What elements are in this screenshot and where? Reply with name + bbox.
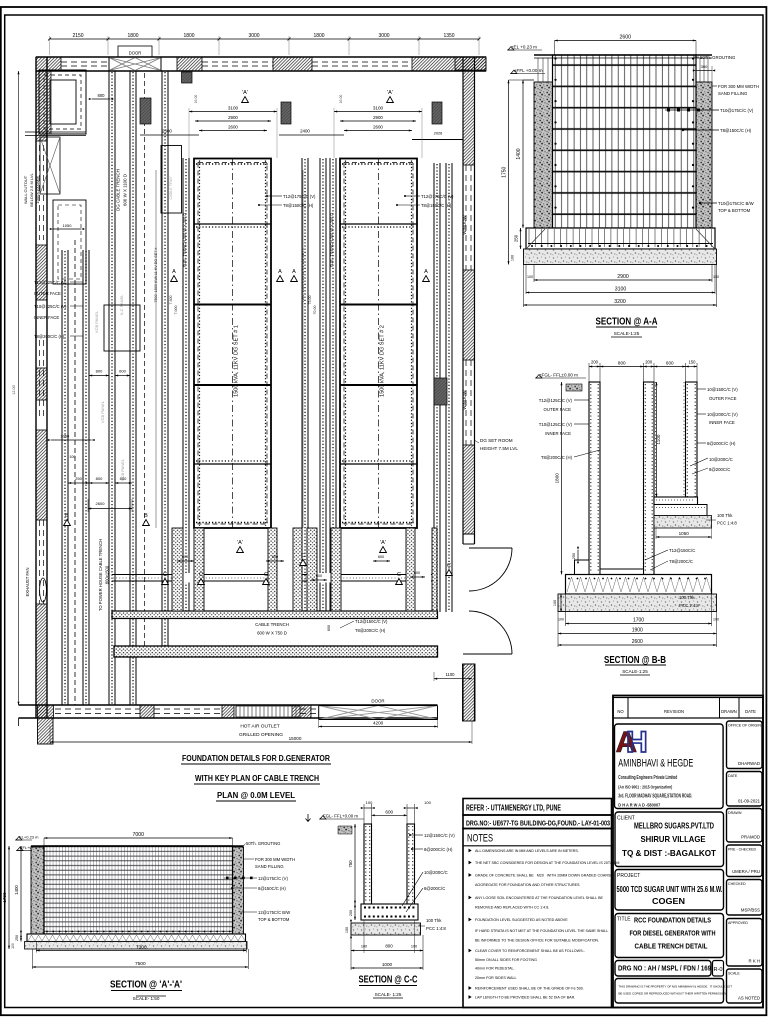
svg-text:PROJECT: PROJECT — [617, 873, 640, 879]
svg-text:2900: 2900 — [373, 115, 383, 120]
svg-text:C: C — [199, 572, 203, 578]
svg-text:DATE: DATE — [745, 709, 756, 714]
svg-text:1800: 1800 — [127, 33, 138, 39]
svg-text:2600: 2600 — [373, 125, 383, 130]
svg-text:SCALE-1:25: SCALE-1:25 — [622, 669, 648, 674]
svg-text:01-09-2021: 01-09-2021 — [738, 799, 761, 804]
svg-text:600: 600 — [414, 571, 420, 575]
svg-text:600: 600 — [327, 625, 331, 631]
svg-text:FUEL TRENCH 300 W X 300 D: FUEL TRENCH 300 W X 300 D — [182, 213, 187, 268]
svg-text:100: 100 — [713, 618, 719, 622]
svg-text:AMINBHAVI & HEGDE: AMINBHAVI & HEGDE — [618, 758, 693, 770]
svg-text:2600: 2600 — [228, 125, 238, 130]
svg-text:150: 150 — [689, 360, 697, 365]
svg-text:BE INFORMED TO THE DESIGN OFFI: BE INFORMED TO THE DESIGN OFFICE FOR SUI… — [475, 939, 599, 943]
svg-text:200: 200 — [349, 910, 353, 916]
svg-text:IF HARD STRATA IS NOT MET AT T: IF HARD STRATA IS NOT MET AT THE FOUNDAT… — [475, 929, 608, 933]
svg-text:3000: 3000 — [248, 33, 259, 39]
svg-text:250: 250 — [514, 234, 519, 242]
svg-text:100: 100 — [366, 800, 373, 805]
svg-text:SECTION @ C-C: SECTION @ C-C — [359, 975, 418, 986]
svg-text:2150: 2150 — [72, 33, 83, 39]
svg-text:SHIRUR VILLAGE: SHIRUR VILLAGE — [641, 835, 706, 844]
svg-text:1100: 1100 — [445, 672, 455, 677]
svg-text:A: A — [278, 269, 282, 275]
svg-text:1500 kVA, 11KV DG SET # 1: 1500 kVA, 11KV DG SET # 1 — [234, 325, 240, 397]
svg-text:RCC FOUNDATION DETAILS: RCC FOUNDATION DETAILS — [634, 916, 711, 925]
svg-text:T10@175C/C (V): T10@175C/C (V) — [720, 108, 754, 113]
svg-text:100: 100 — [411, 945, 417, 949]
svg-text:REFER :- UTTAMENERGY LTD, PUNE: REFER :- UTTAMENERGY LTD, PUNE — [466, 803, 561, 813]
svg-text:70.00: 70.00 — [313, 306, 317, 315]
svg-text:H: H — [626, 726, 648, 759]
svg-text:DRG NO : AH / MSPL / FDN / 169: DRG NO : AH / MSPL / FDN / 169 — [618, 964, 711, 973]
svg-text:1500 kVA, 11KV DG SET # 2: 1500 kVA, 11KV DG SET # 2 — [380, 325, 386, 397]
svg-text:C: C — [163, 572, 167, 578]
svg-text:3000: 3000 — [378, 33, 389, 39]
svg-text:100 Thk: 100 Thk — [679, 595, 695, 600]
svg-text:SCALE: SCALE — [728, 972, 740, 976]
svg-text:3200: 3200 — [614, 299, 626, 305]
svg-text:OUTER FACE: OUTER FACE — [544, 407, 572, 412]
svg-text:A: A — [424, 269, 428, 275]
svg-text:WINDOW: WINDOW — [462, 390, 467, 410]
svg-text:800: 800 — [96, 369, 103, 374]
svg-text:600: 600 — [272, 555, 278, 559]
svg-text:T12@150C/C (V): T12@150C/C (V) — [355, 619, 388, 624]
svg-text:DHARWAD: DHARWAD — [738, 761, 760, 766]
svg-text:C: C — [301, 553, 305, 559]
svg-text:600 W X 1100 D: 600 W X 1100 D — [123, 174, 128, 206]
svg-text:C: C — [264, 572, 268, 578]
svg-text:DRAWN: DRAWN — [721, 709, 737, 714]
svg-text:'A': 'A' — [380, 540, 386, 546]
svg-text:TITLE: TITLE — [617, 917, 631, 923]
svg-text:DATE: DATE — [728, 774, 738, 778]
svg-text:APPROVED: APPROVED — [728, 921, 748, 925]
svg-text:600: 600 — [182, 555, 188, 559]
svg-text:1400: 1400 — [516, 148, 522, 159]
svg-text:EXHAUST FAN: EXHAUST FAN — [25, 567, 30, 596]
svg-text:73.00: 73.00 — [308, 296, 312, 305]
svg-text:C: C — [447, 563, 451, 569]
svg-text:LAP LENGTH TO BE PROVIDED SHAL: LAP LENGTH TO BE PROVIDED SHALL BE 52 DI… — [475, 996, 575, 1000]
svg-text:VCB PANEL: VCB PANEL — [94, 310, 99, 333]
svg-text:HEIGHT 7.5M LVL: HEIGHT 7.5M LVL — [480, 446, 518, 451]
svg-text:R K H: R K H — [749, 959, 760, 964]
svg-text:1800: 1800 — [183, 33, 194, 39]
svg-text:FOUNDATION DETAILS FOR D.GENER: FOUNDATION DETAILS FOR D.GENERATOR — [182, 753, 331, 763]
svg-text:3100: 3100 — [615, 287, 627, 293]
svg-text:T10@125C/C (V): T10@125C/C (V) — [539, 422, 573, 427]
svg-text:OFFICE OF ORIGIN: OFFICE OF ORIGIN — [728, 724, 761, 728]
svg-text:2600: 2600 — [96, 501, 106, 506]
svg-text:1800: 1800 — [313, 33, 324, 39]
svg-text:CHECKED: CHECKED — [728, 882, 746, 886]
svg-text:SCALE- 1:50: SCALE- 1:50 — [133, 996, 160, 1001]
svg-text:'A': 'A' — [242, 90, 248, 96]
svg-text:INNER FACE: INNER FACE — [545, 431, 571, 436]
svg-text:600: 600 — [378, 555, 384, 559]
svg-text:600: 600 — [120, 476, 127, 481]
svg-text:AGGREGATE FOR FOUNDATION AND O: AGGREGATE FOR FOUNDATION AND OTHER STRUC… — [475, 883, 580, 887]
svg-text:10@200C/C: 10@200C/C — [709, 457, 733, 462]
svg-text:EL+0.23 m: EL+0.23 m — [19, 835, 39, 840]
svg-text:1050: 1050 — [679, 531, 690, 536]
svg-text:50Th. GROUTING: 50Th. GROUTING — [700, 55, 736, 60]
svg-text:10@150C/C (V): 10@150C/C (V) — [707, 387, 738, 392]
svg-text:100 Thk: 100 Thk — [717, 513, 733, 518]
svg-text:600: 600 — [316, 574, 322, 578]
svg-text:600: 600 — [666, 361, 674, 366]
svg-text:REINFORCEMENT USED SHALL BE OF: REINFORCEMENT USED SHALL BE OF THE GRADE… — [475, 987, 584, 991]
svg-text:SAND FILLING: SAND FILLING — [718, 91, 748, 96]
svg-text:1100: 1100 — [656, 434, 661, 444]
svg-text:100: 100 — [553, 600, 557, 606]
svg-text:GRADE OF CONCRETE SHALL BE M: GRADE OF CONCRETE SHALL BE M20 WITH 20MM… — [475, 874, 613, 878]
svg-text:16.00: 16.00 — [194, 95, 198, 104]
svg-text:±EL +0.23 m: ±EL +0.23 m — [511, 45, 537, 50]
svg-text:FGL- FFL+0.00 m: FGL- FFL+0.00 m — [323, 814, 358, 819]
svg-text:T8@150C/C (H): T8@150C/C (H) — [283, 203, 314, 208]
svg-text:8@200C/C: 8@200C/C — [424, 886, 445, 891]
svg-text:SCALE- 1:25: SCALE- 1:25 — [375, 992, 402, 997]
svg-text:1000X1000MM: 1000X1000MM — [35, 176, 40, 203]
svg-text:800: 800 — [98, 93, 106, 98]
svg-text:200: 200 — [591, 360, 599, 365]
svg-text:3rd. FLOOR MADHAV SQUARE,STATI: 3rd. FLOOR MADHAV SQUARE,STATION ROAD. — [618, 794, 692, 800]
svg-text:600: 600 — [119, 369, 126, 374]
svg-text:FOUNDATION LEVEL SUGGESTED AS: FOUNDATION LEVEL SUGGESTED AS NOTED ABOV… — [475, 918, 568, 922]
svg-text:TO POWER HOUSE CABLE TRENCH: TO POWER HOUSE CABLE TRENCH — [98, 539, 103, 611]
svg-text:100: 100 — [713, 275, 719, 279]
svg-text:C: C — [397, 572, 401, 578]
svg-text:PRAMOD: PRAMOD — [741, 835, 760, 840]
svg-text:T8@200C/C (H): T8@200C/C (H) — [541, 455, 573, 460]
svg-text:800x1500: 800x1500 — [105, 565, 110, 584]
svg-text:MSP/BSS: MSP/BSS — [741, 908, 760, 913]
svg-text:T10@175C/C B/W: T10@175C/C B/W — [718, 201, 755, 206]
svg-text:SCALE-1:25: SCALE-1:25 — [614, 331, 640, 336]
svg-text:800: 800 — [618, 361, 626, 366]
svg-text:DG SET ROOM: DG SET ROOM — [480, 438, 513, 443]
svg-text:D H A R W A D -580007: D H A R W A D -580007 — [618, 803, 660, 809]
svg-text:4200: 4200 — [373, 721, 384, 726]
svg-text:8@150C/C (H): 8@150C/C (H) — [258, 886, 286, 891]
svg-text:3100: 3100 — [228, 106, 239, 111]
svg-text:250: 250 — [15, 935, 19, 941]
svg-text:T12@175C/C (V): T12@175C/C (V) — [421, 194, 454, 199]
svg-text:T8@200C/C: T8@200C/C — [669, 559, 693, 564]
svg-text:FOR DIESEL GENERATOR WITH: FOR DIESEL GENERATOR WITH — [630, 929, 716, 938]
svg-text:FOR 300 MM WIDTH: FOR 300 MM WIDTH — [255, 857, 295, 862]
svg-text:FOR 300 MM WIDTH: FOR 300 MM WIDTH — [718, 84, 759, 89]
svg-text:PCC 1:4:8: PCC 1:4:8 — [717, 521, 737, 526]
svg-text:12@150C/C (V): 12@150C/C (V) — [424, 833, 455, 838]
svg-text:'A': 'A' — [387, 90, 393, 96]
svg-text:MELLBRO SUGARS.PVT.LTD: MELLBRO SUGARS.PVT.LTD — [634, 822, 714, 831]
svg-text:BE USED COPIED OR REPRODUCED W: BE USED COPIED OR REPRODUCED WITHOUT THE… — [619, 992, 727, 996]
svg-text:16.00: 16.00 — [339, 95, 343, 104]
svg-text:2900: 2900 — [617, 274, 629, 280]
svg-text:SECTION @ 'A'-'A': SECTION @ 'A'-'A' — [110, 980, 182, 991]
svg-text:±FGL- FFL±0.00 m: ±FGL- FFL±0.00 m — [539, 373, 578, 378]
svg-text:8@200C/C (H): 8@200C/C (H) — [424, 847, 453, 852]
svg-text:100: 100 — [558, 618, 564, 622]
svg-text:T12@125C/C (V): T12@125C/C (V) — [539, 398, 573, 403]
svg-text:INNER FACE: INNER FACE — [709, 420, 735, 425]
svg-text:A: A — [292, 269, 296, 275]
svg-text:100: 100 — [511, 255, 515, 261]
svg-text:1050: 1050 — [63, 223, 73, 228]
svg-text:5000 TCD SUGAR UNIT WITH 25.6: 5000 TCD SUGAR UNIT WITH 25.6 M.W. — [617, 885, 723, 894]
svg-text:FUEL TRENCH 300 W X 300 D: FUEL TRENCH 300 W X 300 D — [329, 213, 334, 268]
svg-text:INNER FACE: INNER FACE — [34, 315, 59, 320]
svg-text:SAND FILLING: SAND FILLING — [255, 864, 284, 869]
svg-text:1700: 1700 — [633, 618, 644, 624]
svg-text:UMERA / PRU: UMERA / PRU — [732, 869, 760, 874]
svg-text:HOT AIR OUTLET: HOT AIR OUTLET — [240, 724, 279, 730]
svg-text:(An ISO 9001 : 2015 Organizati: (An ISO 9001 : 2015 Organization) — [618, 785, 672, 791]
svg-text:OUTER FACE: OUTER FACE — [34, 291, 61, 296]
svg-text:ALL DIMENSIONS ARE IN MM AND L: ALL DIMENSIONS ARE IN MM AND LEVELS ARE … — [475, 849, 579, 853]
svg-text:50Th. GROUTING: 50Th. GROUTING — [246, 841, 280, 846]
svg-text:40mm FOR PEDESTAL.: 40mm FOR PEDESTAL. — [475, 967, 515, 971]
svg-text:10@200C/C: 10@200C/C — [424, 870, 448, 875]
svg-text:±FFL +0.00 m: ±FFL +0.00 m — [514, 68, 543, 73]
svg-text:7300: 7300 — [136, 945, 147, 951]
svg-text:100: 100 — [424, 800, 431, 805]
svg-text:250: 250 — [572, 553, 576, 559]
svg-text:1900: 1900 — [632, 628, 643, 634]
svg-text:2600: 2600 — [619, 35, 631, 41]
svg-text:SECTION @ A-A: SECTION @ A-A — [596, 317, 658, 328]
svg-text:B: B — [144, 513, 148, 519]
svg-text:7500: 7500 — [135, 961, 146, 967]
svg-text:50mm ON ALL SIDES FOR FOOTING: 50mm ON ALL SIDES FOR FOOTING — [475, 958, 537, 962]
svg-text:DRG.NO:- UE677-TG BUILDING-DG,: DRG.NO:- UE677-TG BUILDING-DG,FOUND.- LA… — [466, 821, 610, 828]
svg-text:3100: 3100 — [373, 106, 384, 111]
svg-text:BELOW 2.5 M LVL: BELOW 2.5 M LVL — [29, 172, 34, 206]
svg-text:PCC 1:4:8: PCC 1:4:8 — [426, 926, 446, 931]
svg-text:B: B — [65, 513, 69, 519]
svg-text:1000: 1000 — [382, 962, 393, 967]
svg-text:CLIENT: CLIENT — [617, 816, 635, 822]
svg-text:1400: 1400 — [14, 885, 19, 895]
svg-text:TQ & DIST :-BAGALKOT: TQ & DIST :-BAGALKOT — [622, 849, 716, 858]
svg-text:100: 100 — [69, 455, 75, 459]
svg-text:CLEAR COVER TO REINFORCEMENT S: CLEAR COVER TO REINFORCEMENT SHALL BE AS… — [475, 949, 586, 953]
svg-text:THIS DRAWING IS THE PROPERTY O: THIS DRAWING IS THE PROPERTY OF M/S AMIN… — [619, 985, 733, 989]
svg-text:T12@175C/C (V): T12@175C/C (V) — [283, 194, 316, 199]
svg-text:250: 250 — [75, 476, 82, 481]
svg-text:DOOR: DOOR — [371, 699, 384, 704]
svg-text:T12@150C/C: T12@150C/C — [669, 548, 695, 553]
svg-text:AS NOTED: AS NOTED — [738, 996, 760, 1001]
svg-text:12.00: 12.00 — [12, 385, 16, 395]
svg-text:T8@150C/C (H): T8@150C/C (H) — [720, 128, 752, 133]
svg-text:DOOR: DOOR — [129, 51, 142, 56]
svg-text:15000: 15000 — [289, 736, 302, 741]
svg-text:TOP & BOTTOM: TOP & BOTTOM — [258, 917, 290, 922]
svg-text:PCC 1:4:8: PCC 1:4:8 — [679, 603, 699, 608]
svg-text:10@200C/C (V): 10@200C/C (V) — [707, 412, 738, 417]
svg-text:OUTER FACE: OUTER FACE — [709, 396, 737, 401]
svg-text:1790: 1790 — [2, 892, 7, 903]
svg-text:WITH KEY PLAN OF CABLE TRENCH: WITH KEY PLAN OF CABLE TRENCH — [195, 773, 319, 783]
svg-text:800: 800 — [385, 944, 393, 949]
svg-text:NO: NO — [617, 709, 624, 714]
svg-text:PRE - CHECKED: PRE - CHECKED — [728, 848, 757, 852]
svg-text:2400: 2400 — [300, 129, 310, 134]
svg-text:12@175C/C B/W: 12@175C/C B/W — [258, 910, 290, 915]
svg-text:7000: 7000 — [132, 832, 144, 838]
svg-text:750: 750 — [348, 860, 353, 868]
svg-text:2600: 2600 — [632, 639, 643, 645]
svg-text:T10@125C/C (V): T10@125C/C (V) — [34, 304, 67, 309]
svg-text:1350: 1350 — [443, 33, 454, 39]
svg-text:7.300: 7.300 — [169, 296, 173, 305]
svg-text:20mm FOR SIDES WALL: 20mm FOR SIDES WALL — [475, 976, 517, 980]
svg-text:200: 200 — [645, 360, 653, 365]
svg-text:100 Thk: 100 Thk — [426, 918, 442, 923]
svg-text:CABLE TRENCH: CABLE TRENCH — [255, 622, 289, 627]
svg-text:8@200C/C (H): 8@200C/C (H) — [707, 441, 736, 446]
svg-text:REMOVED AND REPLACED WITH CC 1: REMOVED AND REPLACED WITH CC 1:4:8. — [475, 906, 549, 910]
svg-text:NOTES: NOTES — [467, 833, 493, 845]
svg-text:100: 100 — [527, 275, 533, 279]
svg-text:REVISION: REVISION — [664, 709, 684, 714]
svg-text:GRILLED OPENING: GRILLED OPENING — [239, 732, 283, 738]
svg-text:1050: 1050 — [60, 434, 70, 439]
svg-text:CABLE TRENCH DETAIL: CABLE TRENCH DETAIL — [635, 942, 708, 951]
svg-text:600 W X 750 D: 600 W X 750 D — [257, 631, 287, 636]
svg-text:600: 600 — [385, 810, 393, 815]
svg-text:7.000: 7.000 — [174, 306, 178, 315]
svg-text:300: 300 — [701, 64, 708, 69]
svg-text:1800: 1800 — [555, 473, 560, 484]
svg-text:DG CABLE TRENCH: DG CABLE TRENCH — [116, 169, 121, 211]
svg-text:VCB PANEL: VCB PANEL — [100, 400, 105, 423]
svg-text:ANY LOOSE SOIL ENCOUNTERED AT: ANY LOOSE SOIL ENCOUNTERED AT THE FOUNDA… — [475, 896, 603, 900]
svg-text:2300: 2300 — [162, 129, 172, 134]
svg-text:A: A — [172, 269, 176, 275]
svg-text:R-0: R-0 — [713, 967, 722, 973]
svg-text:T8@150C/C (H): T8@150C/C (H) — [421, 203, 452, 208]
svg-text:1750: 1750 — [502, 166, 508, 177]
svg-text:TOP & BOTTOM: TOP & BOTTOM — [718, 208, 751, 213]
svg-text:CABLE TRAY: CABLE TRAY — [169, 176, 173, 200]
svg-text:DRAWN: DRAWN — [728, 811, 742, 815]
svg-text:WINDOW: WINDOW — [462, 215, 467, 235]
svg-text:THE NET SBC CONSIDERED FOR DES: THE NET SBC CONSIDERED FOR DESIGN AT THE… — [475, 861, 619, 865]
svg-text:T8@200C/C (H): T8@200C/C (H) — [355, 628, 386, 633]
svg-text:Consulting Engineers Private L: Consulting Engineers Private Limited — [618, 775, 677, 781]
svg-text:8@200C/C: 8@200C/C — [709, 467, 730, 472]
svg-text:100: 100 — [345, 927, 349, 933]
svg-text:2900: 2900 — [228, 115, 238, 120]
svg-text:2026: 2026 — [434, 131, 443, 136]
svg-text:PLAN @ 0.0M LEVEL: PLAN @ 0.0M LEVEL — [217, 790, 295, 800]
svg-text:SECTION @ B-B: SECTION @ B-B — [604, 655, 666, 666]
svg-text:T8@200C/C (H): T8@200C/C (H) — [34, 334, 65, 339]
svg-text:100: 100 — [11, 943, 15, 949]
svg-text:'A': 'A' — [237, 540, 243, 546]
svg-text:WALL CUTOUT: WALL CUTOUT — [23, 175, 28, 204]
svg-text:800: 800 — [96, 476, 103, 481]
svg-text:12@175C/C (V): 12@175C/C (V) — [258, 876, 288, 881]
svg-text:COGEN: COGEN — [652, 897, 685, 906]
